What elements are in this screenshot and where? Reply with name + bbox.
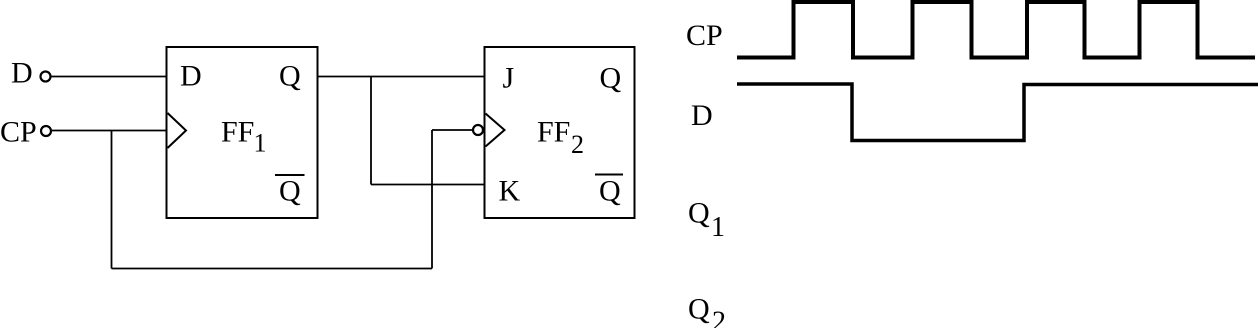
svg-text:Q: Q bbox=[599, 175, 621, 208]
wire CP bottom run bbox=[112, 268, 433, 270]
wire CP input bbox=[52, 130, 167, 132]
FF2 clock triangle bbox=[486, 114, 505, 147]
wire Q1 to J bbox=[318, 76, 485, 78]
FF1 clock triangle bbox=[168, 113, 187, 148]
svg-text:1: 1 bbox=[254, 129, 267, 158]
wire to FF2 clock bubble bbox=[432, 129, 473, 131]
svg-text:1: 1 bbox=[711, 212, 725, 243]
svg-text:D: D bbox=[691, 99, 713, 132]
terminal CP circle bbox=[41, 126, 51, 136]
terminal D circle bbox=[41, 72, 51, 82]
svg-text:K: K bbox=[499, 175, 521, 208]
svg-text:2: 2 bbox=[712, 307, 726, 328]
svg-text:Q: Q bbox=[688, 197, 710, 230]
svg-text:CP: CP bbox=[686, 19, 723, 52]
wire branch Q1 down bbox=[370, 77, 372, 185]
waveform CP trace bbox=[737, 2, 1255, 58]
svg-text:FF: FF bbox=[221, 116, 254, 149]
svg-text:CP: CP bbox=[0, 116, 37, 149]
svg-text:FF: FF bbox=[537, 116, 570, 149]
svg-text:Q: Q bbox=[600, 62, 622, 95]
svg-text:D: D bbox=[11, 57, 33, 90]
flip-flop FF1 box bbox=[167, 47, 318, 218]
FF2 clock bubble bbox=[473, 125, 483, 135]
svg-text:D: D bbox=[180, 60, 202, 93]
wire to K bbox=[371, 184, 485, 186]
svg-text:J: J bbox=[503, 62, 515, 95]
waveform D trace bbox=[737, 84, 1258, 141]
svg-text:Q: Q bbox=[688, 293, 710, 326]
FF2 Qbar overline bbox=[595, 174, 623, 176]
wire CP branch down bbox=[111, 131, 113, 269]
svg-text:Q: Q bbox=[279, 175, 301, 208]
wire CP up to FF2 clock bbox=[431, 130, 433, 269]
svg-text:Q: Q bbox=[279, 60, 301, 93]
svg-text:2: 2 bbox=[571, 130, 584, 159]
flip-flop FF2 box bbox=[485, 47, 635, 218]
FF1 Qbar overline bbox=[275, 174, 305, 176]
wire D input bbox=[52, 76, 167, 78]
